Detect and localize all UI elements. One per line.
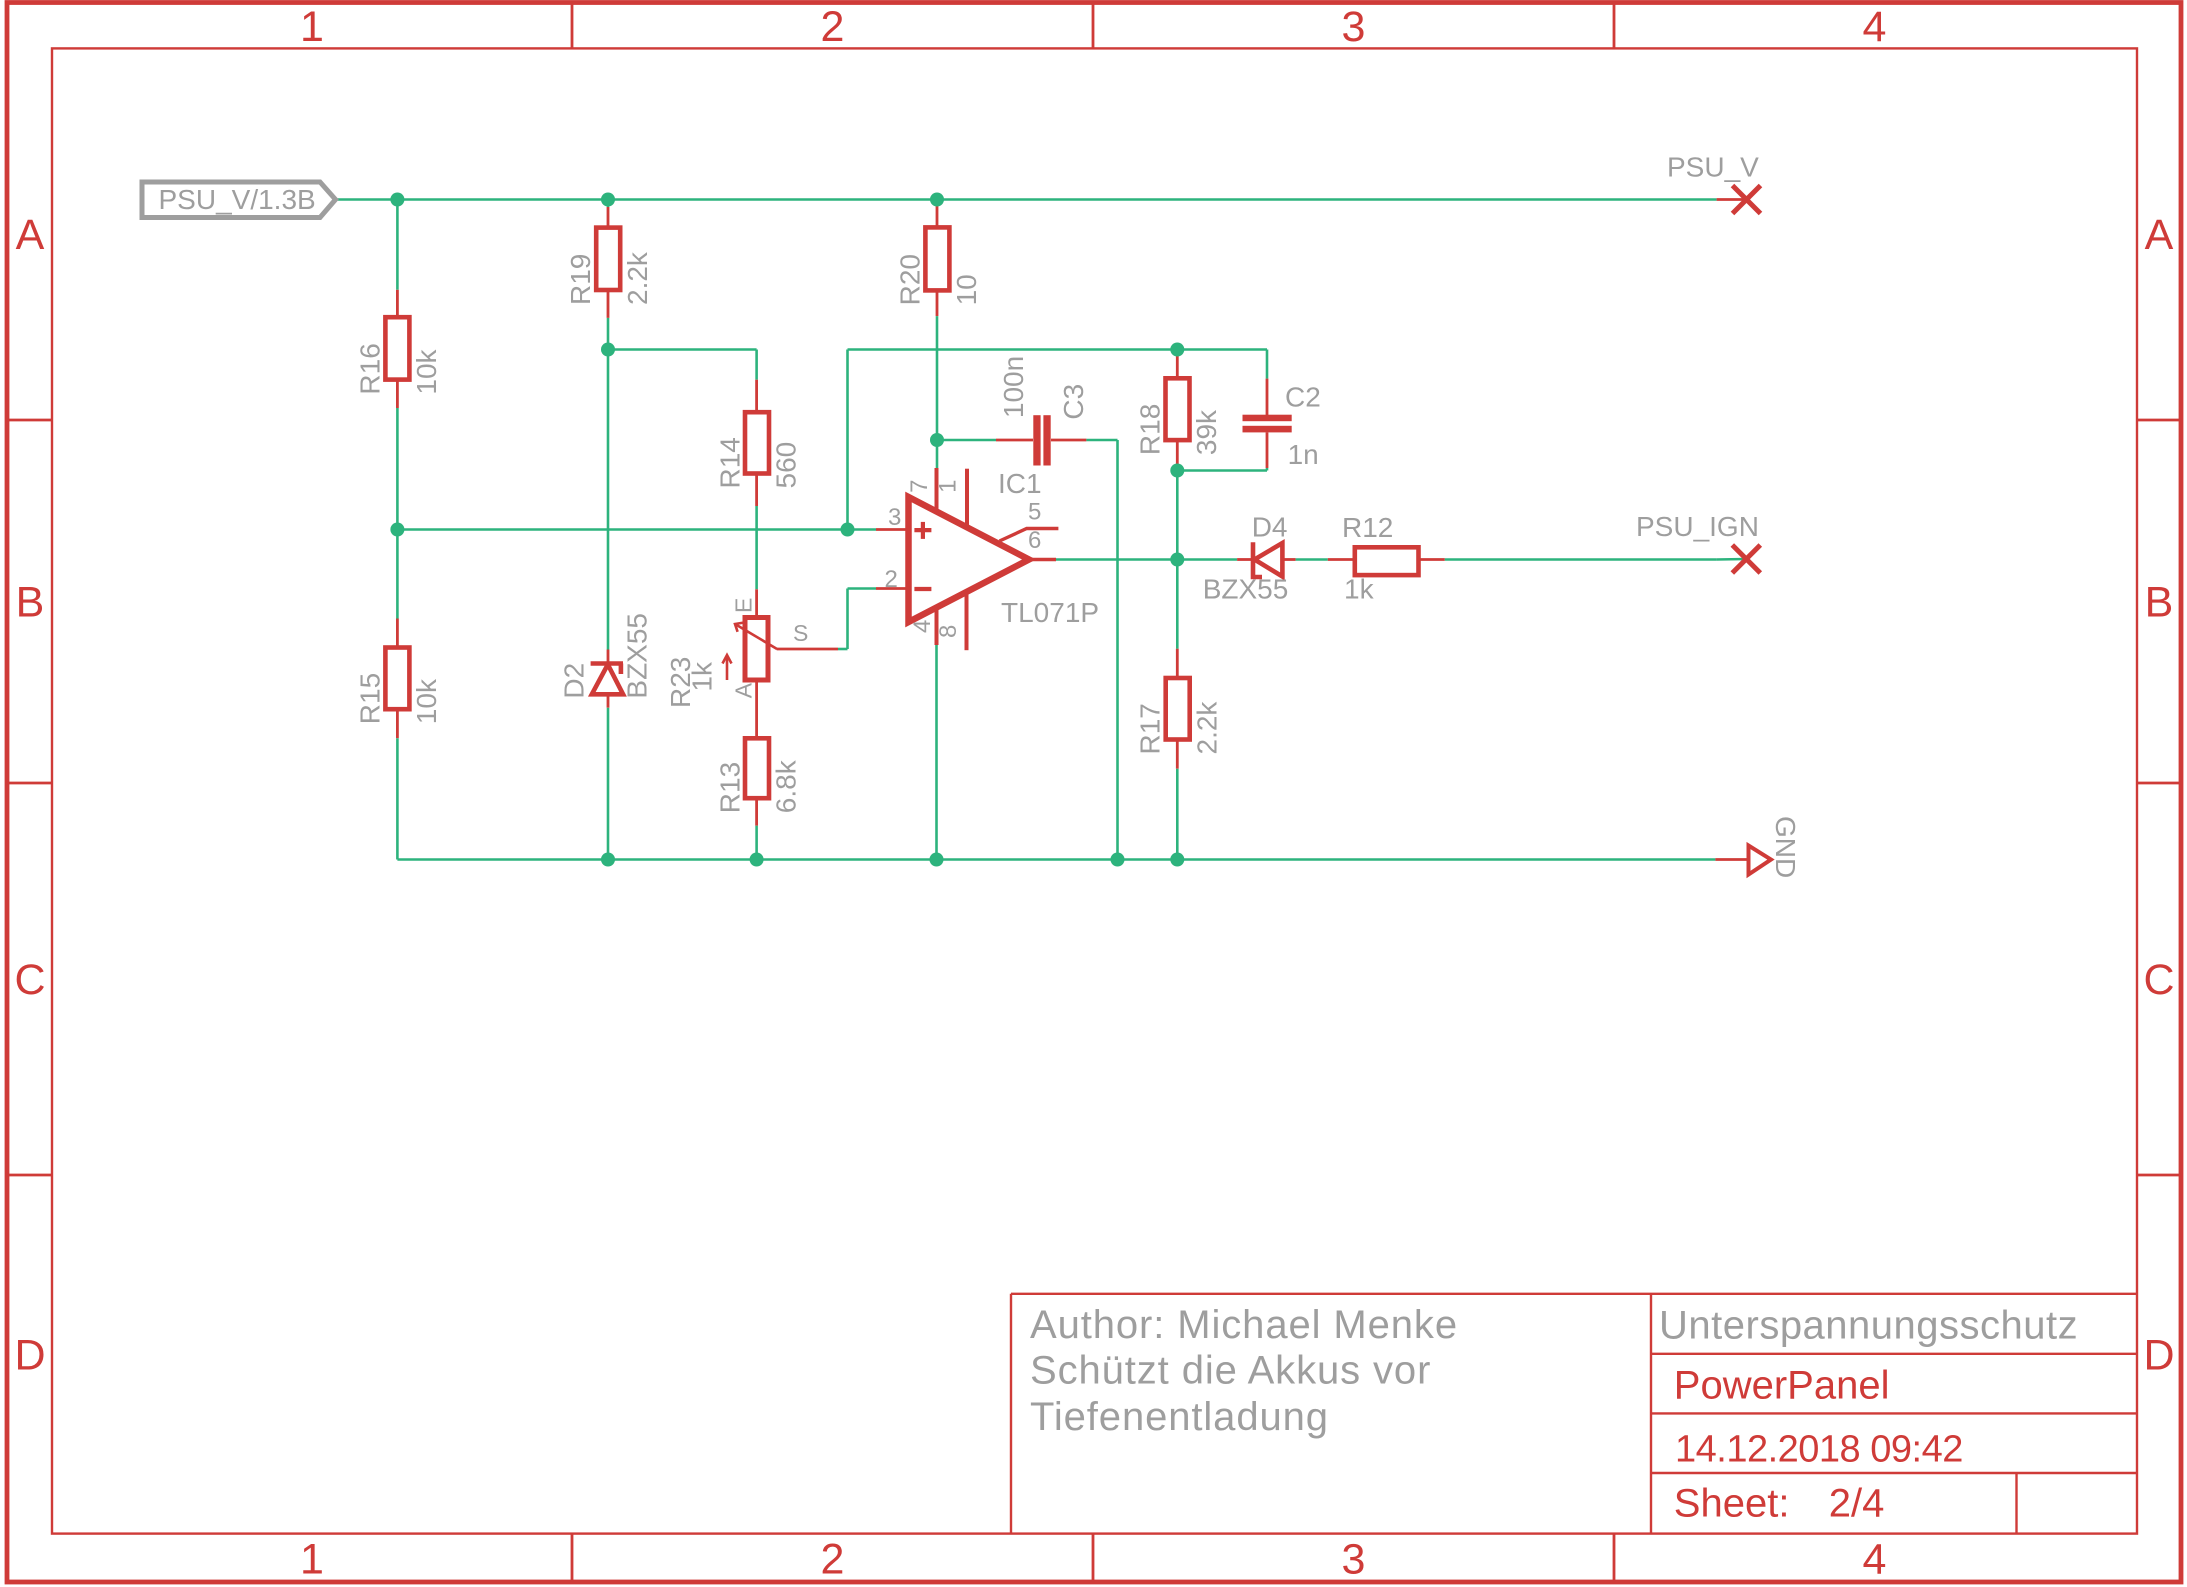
svg-text:Tiefenentladung: Tiefenentladung [1030,1395,1329,1439]
svg-text:10: 10 [951,274,982,305]
svg-text:2: 2 [821,3,845,51]
svg-text:A: A [731,682,757,698]
svg-text:100n: 100n [998,356,1029,418]
svg-text:R18: R18 [1134,404,1165,455]
svg-text:C2: C2 [1285,382,1321,413]
svg-text:1k: 1k [687,661,718,692]
svg-text:3: 3 [1342,3,1366,51]
svg-text:C: C [14,956,45,1004]
svg-text:10k: 10k [411,678,442,724]
svg-text:BZX55: BZX55 [1203,574,1289,605]
svg-text:6: 6 [1028,527,1041,554]
svg-text:1: 1 [300,3,324,51]
svg-text:R16: R16 [354,343,385,394]
svg-text:BZX55: BZX55 [622,613,653,699]
svg-text:R19: R19 [565,254,596,305]
svg-text:14.12.2018 09:42: 14.12.2018 09:42 [1675,1429,1963,1471]
svg-text:3: 3 [1342,1536,1366,1584]
svg-text:1n: 1n [1288,439,1319,470]
svg-text:R17: R17 [1135,703,1166,754]
svg-text:Author: Michael Menke: Author: Michael Menke [1030,1303,1458,1347]
svg-text:E: E [731,598,757,613]
svg-text:PSU_IGN: PSU_IGN [1636,511,1759,542]
svg-text:R15: R15 [354,673,385,724]
svg-text:Sheet:: Sheet: [1674,1482,1790,1526]
svg-text:5: 5 [1028,499,1041,526]
svg-text:R20: R20 [894,254,925,305]
svg-text:2: 2 [821,1536,845,1584]
svg-text:TL071P: TL071P [1001,597,1099,628]
svg-text:PowerPanel: PowerPanel [1674,1364,1890,1408]
svg-text:7: 7 [906,480,933,493]
svg-text:4: 4 [1863,3,1887,51]
svg-text:2.2k: 2.2k [1191,701,1222,755]
svg-text:IC1: IC1 [998,468,1042,499]
svg-text:B: B [16,579,45,627]
svg-text:D4: D4 [1252,511,1288,542]
svg-text:Schützt die Akkus vor: Schützt die Akkus vor [1030,1349,1431,1393]
svg-text:8: 8 [935,625,962,638]
svg-text:4: 4 [1863,1536,1887,1584]
svg-text:D2: D2 [558,663,589,699]
svg-text:C3: C3 [1058,384,1089,420]
svg-text:2.2k: 2.2k [622,251,653,305]
svg-text:A: A [2145,211,2174,259]
svg-text:3: 3 [888,504,901,531]
svg-text:GND: GND [1770,816,1801,878]
svg-text:1k: 1k [1344,574,1375,605]
svg-text:2/4: 2/4 [1829,1482,1885,1526]
svg-text:R14: R14 [714,437,745,488]
svg-text:R12: R12 [1342,512,1393,543]
svg-text:R13: R13 [714,762,745,813]
svg-text:Unterspannungsschutz: Unterspannungsschutz [1659,1304,2078,1348]
svg-text:B: B [2145,579,2174,627]
svg-text:10k: 10k [411,348,442,394]
svg-text:39k: 39k [1191,409,1222,455]
svg-text:S: S [793,620,808,646]
svg-text:1: 1 [935,480,962,493]
svg-text:A: A [16,211,45,259]
svg-text:6.8k: 6.8k [771,759,802,813]
svg-text:4: 4 [909,620,936,633]
svg-text:D: D [2143,1332,2174,1380]
svg-text:C: C [2143,956,2174,1004]
svg-text:PSU_V: PSU_V [1667,152,1759,183]
svg-text:D: D [14,1332,45,1380]
svg-text:2: 2 [885,566,898,593]
svg-text:560: 560 [771,442,802,489]
svg-text:1: 1 [300,1536,324,1584]
svg-text:PSU_V/1.3B: PSU_V/1.3B [159,184,316,215]
